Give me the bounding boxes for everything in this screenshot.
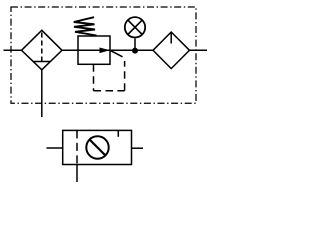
pressure gauge X mark <box>128 20 142 34</box>
simplified unit drain line <box>76 165 78 183</box>
simplified unit gauge circle <box>86 136 108 158</box>
filter chord (separator line) <box>33 61 50 63</box>
regulator pilot dashed line <box>94 61 125 91</box>
simplified unit left stub <box>47 147 63 149</box>
wire main flow line left stub <box>4 49 22 51</box>
simplified unit right stub <box>132 147 144 149</box>
regulator R1 body <box>78 36 110 64</box>
wire gauge stub <box>134 39 136 50</box>
regulator relief diagonal <box>110 50 123 57</box>
junction node <box>132 48 138 54</box>
regulator spring <box>74 17 97 35</box>
enclosure dash-dot border <box>11 7 196 103</box>
lubricator L1 diamond <box>153 32 190 69</box>
filter F1 diamond <box>22 30 63 70</box>
regulator flow arrow <box>100 48 111 54</box>
simplified unit dashed divider <box>76 130 78 164</box>
wire flow line right exit <box>190 49 208 51</box>
filter drain line <box>41 70 43 117</box>
pressure gauge G1 circle <box>125 17 145 37</box>
simplified service unit body <box>63 130 132 164</box>
wire flow line filter to regulator to junction <box>62 49 153 51</box>
lubricator drip stub <box>170 32 172 44</box>
simplified unit gauge diagonal <box>89 139 105 155</box>
simplified unit tick <box>117 130 119 136</box>
filter dashed centerline <box>41 33 43 62</box>
